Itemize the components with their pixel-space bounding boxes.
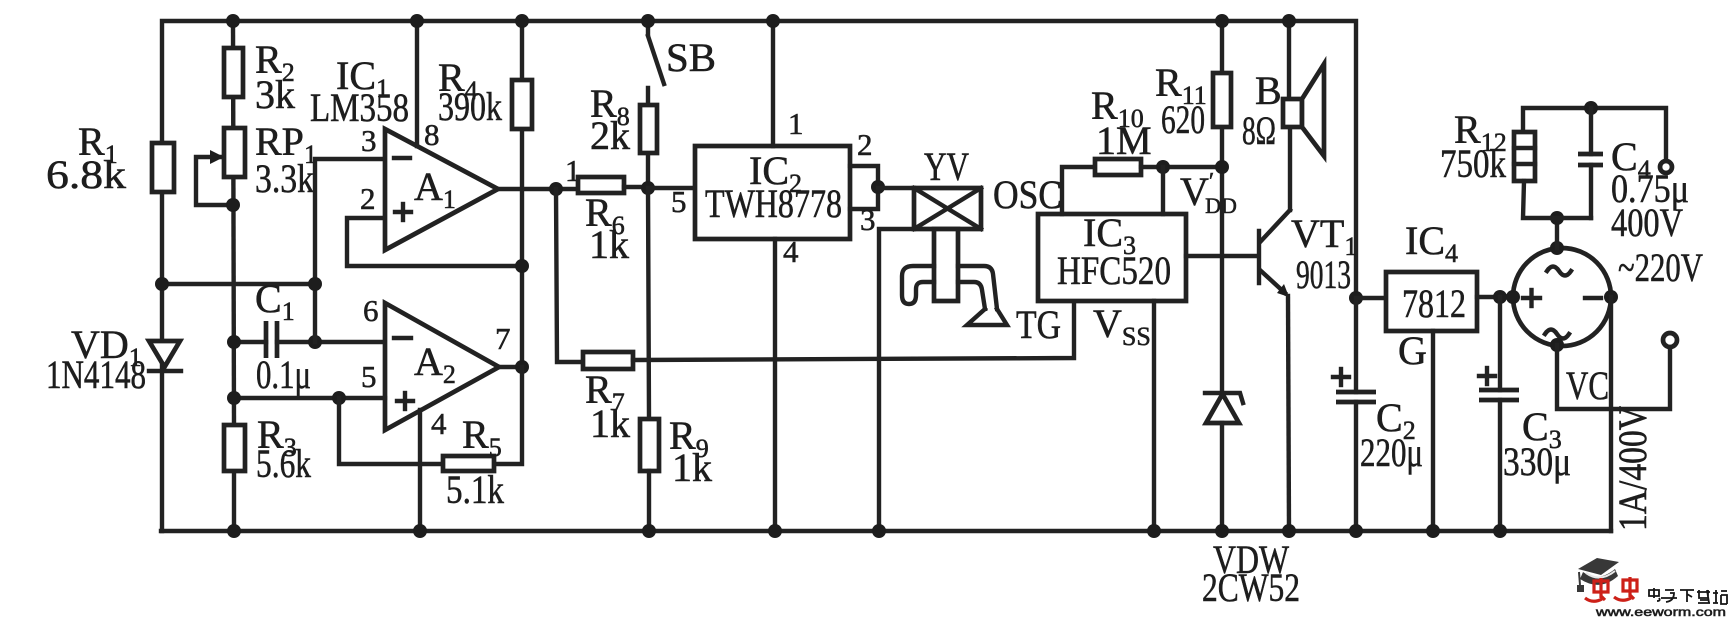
junction node R6/R8/IC2 pin5 [641,181,655,195]
potentiometer RP1 [196,119,317,212]
wire: to valve YV [878,186,914,190]
svg-text:5.1k: 5.1k [446,467,504,512]
wire: top supply rail [162,21,1356,298]
svg-text:6: 6 [363,293,379,328]
wire: bottom ground rail [161,529,1611,533]
svg-text:1k: 1k [672,445,712,490]
svg-text:HFC520: HFC520 [1057,248,1171,293]
junction [155,277,169,291]
IC U2 TWH8778 [695,146,850,239]
wire: YV to ground [879,229,914,531]
svg-text:1: 1 [788,106,804,141]
svg-text:LM358: LM358 [310,85,409,130]
capacitor C1 [227,276,385,397]
svg-text:330μ: 330μ [1503,439,1571,484]
wire: R9 column [648,188,649,419]
wire: A2 pin4 to ground [418,410,422,531]
wire: R12/C4 top [1523,108,1666,161]
logo: graduation cap icon [1577,558,1619,592]
junction: IC4 input node [1349,291,1363,305]
solenoid valve YV [914,144,981,229]
resistor R4 [438,14,532,367]
wire: VT1 emitter to ground [1288,296,1289,531]
sprinkler right hook [958,266,997,309]
wire: IC4 ground pin [1431,331,1435,531]
wire: A1 pin2 input loop [347,218,522,266]
wire: OSC pin loop [1062,167,1095,214]
resistor R10 [1091,83,1222,175]
svg-text:G: G [1398,328,1427,373]
svg-text:5.6k: 5.6k [256,441,311,486]
resistor R8 [590,81,657,188]
svg-text:0.1μ: 0.1μ [256,352,311,397]
svg-text:4: 4 [431,406,447,441]
resistor R5 [443,412,504,512]
diode VD1 1N4148 [46,322,181,397]
terminal VC [1663,333,1677,347]
svg-text:~220V: ~220V [1618,245,1703,290]
svg-text:9013: 9013 [1296,252,1351,297]
resistor R11 [1155,14,1231,392]
resistor R6 [578,177,648,267]
wire: IC2 pins 2-3 bracket [850,166,878,209]
svg-text:220μ: 220μ [1360,430,1423,475]
wire: column R2/RP1/R3 [233,21,234,425]
svg-text:4: 4 [783,234,799,269]
wire: bridge top to R12/C4 [1555,218,1559,248]
svg-text:B: B [1255,68,1282,113]
wire: bridge right to fuse column [1609,297,1613,531]
speaker B 8ohm [1242,64,1324,156]
junction [227,524,241,538]
svg-text:3.3k: 3.3k [255,156,314,201]
resistor R3 [224,412,311,486]
wire: IC4 out to bridge [1477,295,1513,299]
wire: A1 output down to R7 [556,189,583,362]
svg-text:1k: 1k [589,222,629,267]
wire: to IC4 [1356,296,1386,300]
terminal AC in [1660,161,1672,173]
wire: to IC2 pin 5 [648,186,695,190]
svg-text:TWH8778: TWH8778 [705,181,842,226]
wire: A1 output [498,187,578,191]
wire: R7 to TG [633,301,1074,360]
switch SB [641,14,716,84]
IC U4 7812 [1386,218,1477,331]
svg-text:5: 5 [361,359,377,394]
capacitor C2 [1333,298,1423,538]
wire: A2 output [499,365,522,369]
junction [226,14,240,28]
svg-text:VC: VC [1566,363,1609,408]
resistor R12 [1440,107,1591,218]
wire: A2 pin5 input [234,396,385,400]
capacitor C3 [1479,297,1571,538]
svg-text:7812: 7812 [1402,281,1466,326]
wire: speaker column [1287,21,1291,99]
svg-text:2: 2 [360,181,376,216]
resistor R9 [640,413,712,538]
logo: site name characters [1649,588,1727,604]
wire: left column R1/VD1 [160,284,164,531]
wire: VSS pin to ground [1152,301,1156,531]
svg-text:1A/400V: 1A/400V [1610,406,1655,531]
svg-text:1k: 1k [590,401,630,446]
svg-text:5: 5 [671,184,687,219]
svg-text:1M: 1M [1096,118,1152,163]
svg-text:750k: 750k [1440,141,1506,186]
sprinkler foot [967,309,1007,325]
op-amp U1A (A1) [385,129,498,250]
wire: bridge bottom to VC terminal [1557,345,1670,409]
svg-text:620: 620 [1161,97,1205,142]
capacitor C4 [1578,108,1689,245]
svg-text:2k: 2k [590,113,630,158]
resistor R1 [46,119,174,197]
svg-text:3k: 3k [255,72,295,117]
transistor VT1 9013 [1259,210,1357,297]
svg-text:SB: SB [666,35,716,80]
op-amp U1B (A2) [385,303,499,430]
svg-text:390k: 390k [438,84,502,129]
svg-text:3: 3 [860,202,876,237]
svg-text:7: 7 [495,321,511,356]
wire: R5 feedback loop [339,398,443,464]
svg-text:2CW52: 2CW52 [1202,565,1300,610]
svg-text:YV: YV [924,144,969,189]
wire: A1 pin3 input [315,159,385,342]
svg-text:1N4148: 1N4148 [46,352,146,397]
logo: chongchong red characters [1585,577,1637,601]
node: mid-left rail [162,282,315,286]
svg-text:400V: 400V [1611,200,1683,245]
valve plunger [934,229,958,301]
svg-text:3: 3 [361,123,377,158]
svg-text:OSC: OSC [993,172,1062,217]
resistor R2 [224,37,295,117]
bridge rectifier [1506,241,1618,352]
sprinkler left hook [902,266,934,304]
wire: A1 pin8 to rail [415,21,419,146]
IC U3 HFC520 [1038,210,1186,301]
svg-text:8Ω: 8Ω [1242,108,1276,153]
zener diode VDW 2CW52 [1202,393,1300,610]
wire: IC2 pin4 to ground [773,239,777,531]
svg-text:6.8k: 6.8k [46,152,126,197]
wire: IC2 pin1 to rail [771,21,775,146]
wire: IC3 to VT1 base [1186,254,1257,258]
svg-text:TG: TG [1016,302,1061,347]
svg-text:2: 2 [857,127,873,162]
svg-text:www.eeworm.com: www.eeworm.com [1595,605,1726,617]
resistor R7 [583,352,633,446]
wire: VDD pin [1161,167,1165,214]
